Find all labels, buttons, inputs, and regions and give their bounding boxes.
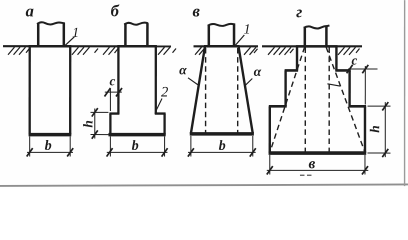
- h label fig g (rotated): [370, 126, 379, 133]
- figure letter a: [26, 9, 34, 17]
- figure letter g: [296, 10, 302, 18]
- column of fig g: [305, 27, 327, 47]
- soil hatching between fig a and fig b: [72, 47, 118, 55]
- tier1-tier2 step edges fig g: [285, 69, 351, 72]
- label 1 fig v: [244, 24, 249, 33]
- tick marks h-dim fig b: [92, 108, 98, 139]
- h dimension extensions fig b: [90, 112, 108, 134]
- column break wavy line fig a: [37, 22, 65, 24]
- b dimension line fig a: [27, 151, 73, 153]
- tier1 top edge fig g: [296, 45, 338, 48]
- trapezoid top edge fig v: [204, 45, 239, 48]
- b label fig v: [219, 140, 225, 150]
- tier2-tier3 step edges fig g: [269, 105, 366, 108]
- h dimension extensions fig g: [367, 106, 390, 153]
- dashed pressure slant left fig g: [270, 47, 305, 152]
- label 1 fig a: [73, 28, 78, 37]
- trapezoid right slant fig v: [238, 46, 252, 133]
- dashed vertical right fig v: [237, 48, 239, 133]
- extension lines b-dim fig b: [110, 136, 164, 156]
- column of fig v: [209, 25, 234, 47]
- alpha label left fig v: [179, 68, 186, 75]
- c dimension extension fig g: [364, 66, 366, 105]
- foundation body fig a: [30, 46, 71, 134]
- tier3 bottom edge fig g (thick): [269, 151, 367, 155]
- extension lines b-dim fig v: [191, 136, 253, 157]
- dashed vertical left fig v: [205, 48, 207, 133]
- c label fig b: [110, 79, 115, 85]
- soil hatching right of fig b: [158, 47, 176, 55]
- b dimension line fig b: [107, 151, 168, 153]
- small stray mark bottom: [300, 174, 312, 176]
- alpha leader left fig v: [188, 78, 198, 85]
- angle mark between dashed lines fig g: [327, 84, 340, 86]
- footing step fig b: [109, 114, 165, 135]
- tick marks c-dim fig g: [347, 65, 369, 73]
- page right border line: [404, 0, 406, 186]
- soil hatching right of fig g: [338, 47, 360, 55]
- c dimension extension fig b: [109, 89, 111, 111]
- b label fig a: [45, 140, 51, 150]
- soil hatching left of fig v: [195, 47, 206, 55]
- h dimension line fig g: [384, 102, 386, 157]
- extension lines v-dim fig g: [270, 155, 365, 175]
- ground line a+b: [3, 45, 171, 47]
- label 1 leader fig v: [235, 35, 245, 46]
- label 1 leader fig a: [64, 37, 74, 46]
- tick marks b-dim fig v: [188, 148, 256, 156]
- alpha leader right fig v: [245, 79, 253, 86]
- tick marks v-dim fig g: [267, 166, 368, 174]
- label 2 leader fig b: [155, 98, 162, 112]
- extension lines b-dim fig a: [30, 136, 71, 156]
- tick marks h-dim fig g: [382, 102, 388, 157]
- soil hatching left of fig g: [268, 47, 294, 55]
- tick marks b-dim fig a: [27, 148, 74, 156]
- column break wavy line fig v: [208, 24, 235, 26]
- footing bottom edge fig b (thick): [108, 133, 165, 137]
- h dimension line fig b: [94, 108, 96, 138]
- tick marks c-dim fig b: [104, 88, 122, 97]
- alpha label right fig v: [254, 69, 261, 76]
- trapezoid bottom edge fig v (thick): [190, 132, 254, 136]
- c dimension line fig g: [348, 68, 378, 70]
- label 2 fig b: [161, 87, 168, 97]
- c dimension line fig b: [105, 91, 122, 93]
- ground line g: [262, 45, 362, 47]
- dashed pressure slant right fig g: [326, 47, 365, 152]
- column break wavy line fig b: [124, 23, 148, 25]
- column of fig b: [125, 23, 147, 46]
- column of fig a: [38, 23, 64, 47]
- h label fig b (rotated): [83, 121, 92, 128]
- tier1 sides fig g: [297, 46, 336, 70]
- trapezoid left slant fig v: [191, 46, 205, 133]
- tier2 sides fig g: [286, 70, 350, 106]
- foundation top edge fig a: [29, 45, 72, 48]
- soil hatching right of fig v: [244, 47, 258, 55]
- shaft of fig b: [118, 46, 155, 114]
- shaft top edge fig b: [117, 45, 157, 48]
- tier3 sides fig g: [270, 106, 365, 153]
- soil hatching left of fig a: [8, 47, 30, 55]
- foundation bottom edge fig a (thick): [29, 133, 72, 137]
- v label fig g: [309, 161, 315, 168]
- dashed vertical right fig g: [328, 48, 330, 153]
- figure letter b: [111, 4, 119, 16]
- c label fig g: [352, 58, 357, 64]
- figure letter v: [193, 9, 200, 17]
- v dimension line fig g: [267, 169, 369, 171]
- b label fig b: [132, 140, 138, 150]
- dashed vertical left fig g: [304, 48, 306, 152]
- ground line v: [194, 45, 258, 47]
- page bottom border line: [0, 184, 408, 186]
- column break wavy line fig g: [304, 25, 330, 28]
- b dimension line fig v: [188, 151, 256, 153]
- tick marks b-dim fig b: [107, 148, 168, 156]
